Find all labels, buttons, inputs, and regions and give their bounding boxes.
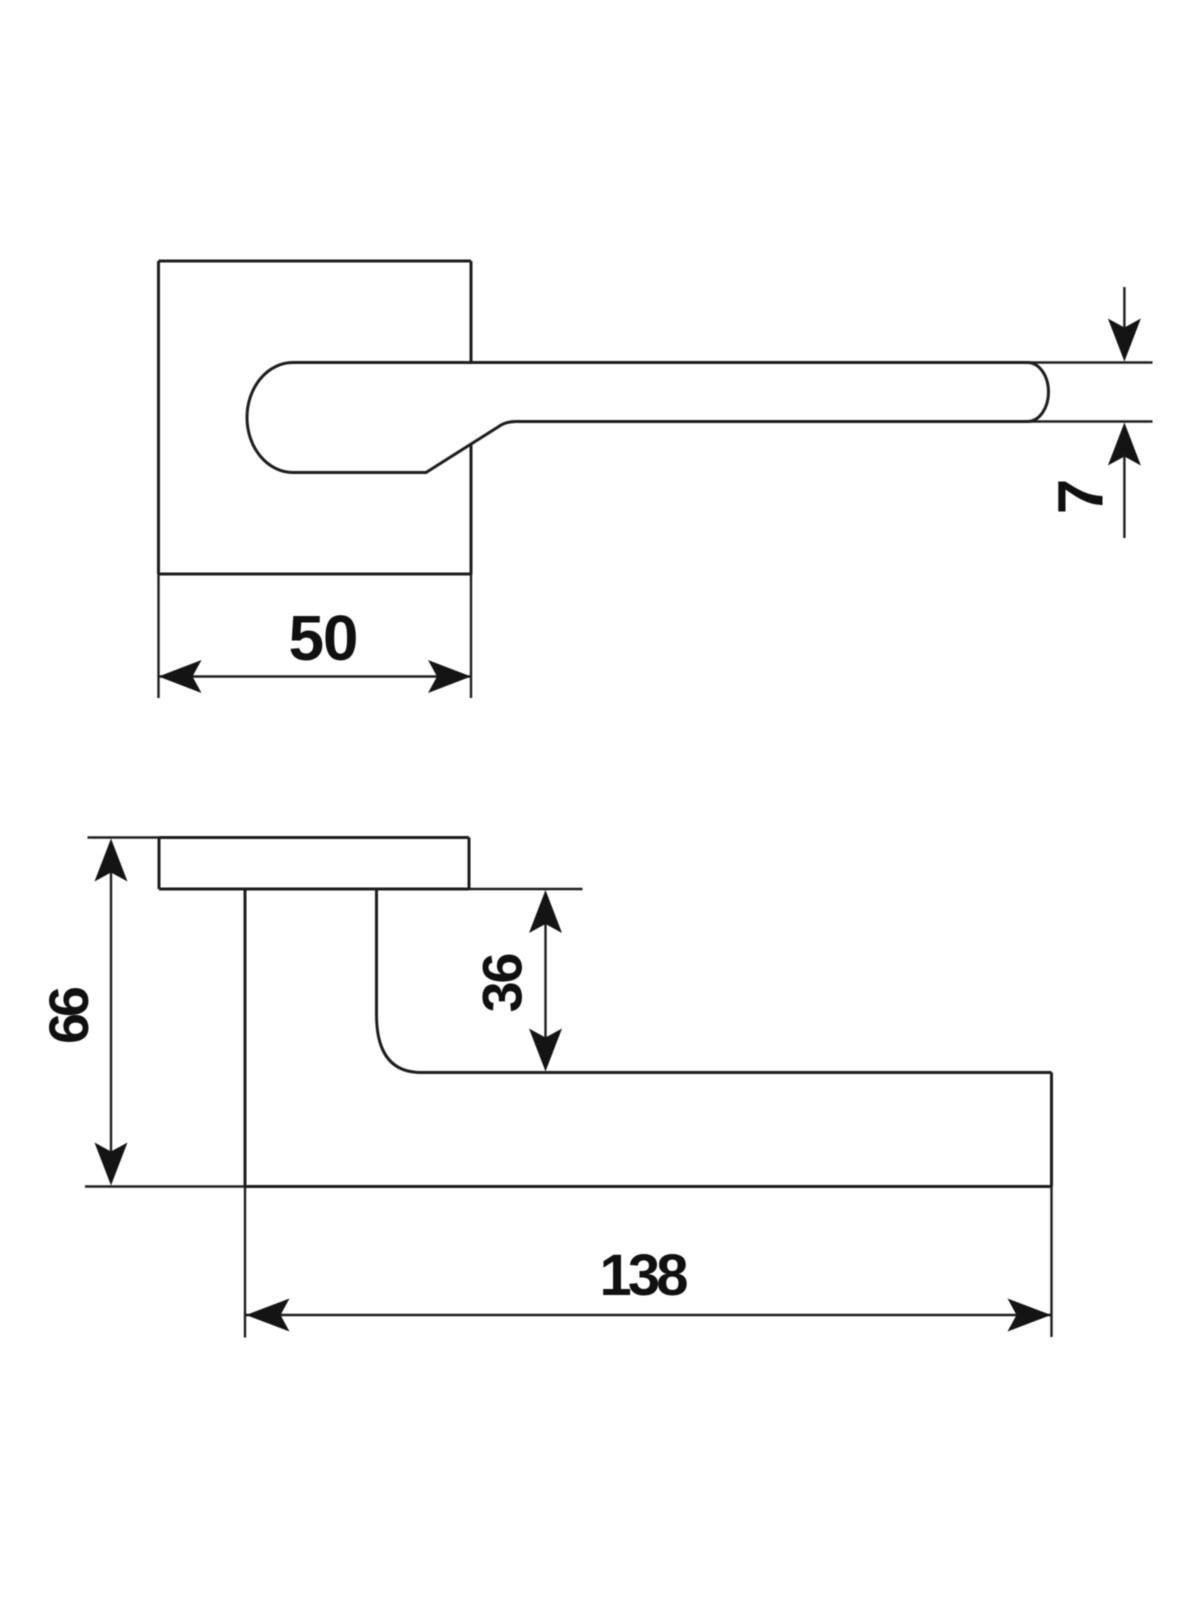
dim 36 top arrowhead — [529, 890, 562, 933]
handle neck right edge with bend radius (side view) — [377, 889, 422, 1073]
dim 50 left extension line — [157, 574, 159, 698]
rose square top view: bottom edge — [159, 573, 472, 576]
svg-text:50: 50 — [289, 602, 359, 674]
dim 36 bottom arrowhead — [529, 1029, 562, 1072]
dim 66 bottom arrowhead — [95, 1143, 128, 1186]
grip top line (side view) — [421, 1071, 1052, 1074]
svg-text:138: 138 — [600, 1243, 689, 1308]
svg-text:66: 66 — [37, 986, 100, 1044]
rose square top view: right edge lower segment — [470, 445, 473, 574]
rose plate side view: bottom edge — [159, 888, 469, 891]
dim 36 top extension line — [469, 888, 583, 890]
dim 138 left arrowhead — [246, 1299, 290, 1332]
grip right end edge (side view) — [1050, 1073, 1053, 1187]
lever handle outline (top view) — [247, 362, 1048, 472]
svg-text:7: 7 — [1045, 479, 1117, 515]
rose square top view: left edge — [157, 261, 160, 574]
rose plate side view: right edge — [468, 838, 471, 890]
dim 138 right arrowhead — [1008, 1299, 1052, 1332]
dim 7 bottom extension line — [1030, 420, 1153, 422]
dim 138 left extension line — [244, 1187, 246, 1338]
dim 36 arrow shaft — [544, 895, 546, 1066]
dim 138 right extension line — [1050, 1187, 1052, 1338]
rose square top view: top edge — [159, 260, 472, 263]
dim 50 dimension line — [159, 675, 472, 677]
dim 138 dimension line — [246, 1314, 1051, 1316]
dim 50 right extension line — [470, 574, 472, 698]
dim 7 top extension line — [1005, 361, 1153, 363]
rose plate side view: top line with 66 extension — [88, 836, 160, 838]
handle neck left edge (side view) — [244, 889, 247, 1187]
dim 50 right arrowhead — [428, 660, 471, 693]
dim 50 left arrowhead — [159, 660, 202, 693]
rose square top view: right edge upper segment — [470, 261, 473, 363]
dim 66 top arrowhead — [95, 839, 128, 882]
dim 66 arrow shaft — [110, 845, 112, 1180]
rose plate side view: left edge — [158, 838, 161, 890]
dim 7 lower arrowhead — [1108, 423, 1141, 466]
dim 7 upper arrowhead — [1108, 319, 1141, 362]
dim 7 lower arrow shaft — [1123, 455, 1125, 538]
svg-text:36: 36 — [471, 953, 534, 1013]
dim 7 upper arrow shaft — [1123, 287, 1125, 330]
grip bottom line (side view) with 66 extension — [85, 1185, 245, 1187]
